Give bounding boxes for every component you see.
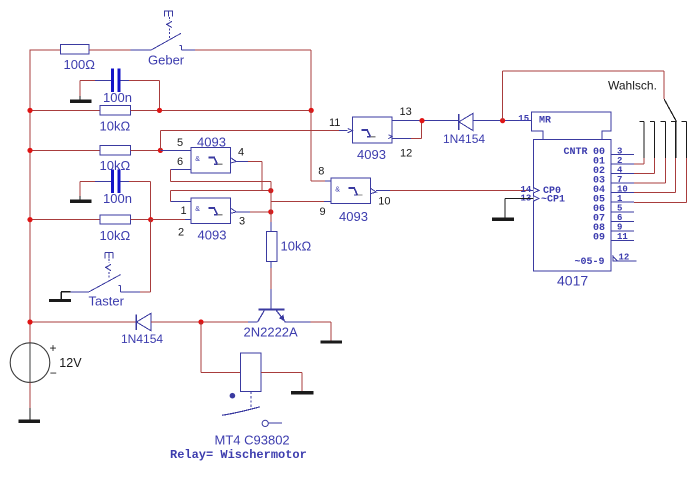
wire U1C pin13 output to diode D1 <box>392 120 459 122</box>
wire Taster right up to node row3 <box>120 220 150 292</box>
wire R5 to Q1 base <box>270 262 272 309</box>
capacitor C2 100n <box>95 170 129 193</box>
svg-text:MT4 C93802: MT4 C93802 <box>215 433 290 448</box>
pin label 13 CP1 <box>521 194 532 204</box>
4017 output 01 pin 2 stub <box>593 156 634 168</box>
ground V1 <box>18 420 40 423</box>
wire bus to R1 <box>30 49 61 51</box>
svg-text:100n: 100n <box>103 191 132 206</box>
4017 output 09 pin 11 stub <box>593 232 634 244</box>
ground CP1 <box>492 218 514 221</box>
svg-text:2N2222A: 2N2222A <box>244 325 299 340</box>
wire D1 to node H and MR pin15 <box>473 120 532 122</box>
node row2 <box>158 148 163 153</box>
switch S1 Geber <box>131 11 182 50</box>
wire node to U1D pin 9 <box>271 200 331 202</box>
svg-text:5: 5 <box>177 137 183 149</box>
wire C1 left to ground <box>80 81 95 100</box>
wire U1B pin1 from feedback row <box>170 190 270 201</box>
svg-text:100n: 100n <box>103 90 132 105</box>
wire D2 to node I <box>151 321 201 323</box>
svg-text:100Ω: 100Ω <box>64 57 96 72</box>
4017 output ~05-9 pin 12 stub <box>613 253 637 263</box>
svg-text:2: 2 <box>178 227 184 239</box>
wire bus to diode D2 <box>30 321 136 323</box>
pin label 15 <box>518 114 529 124</box>
svg-text:15: 15 <box>518 114 529 124</box>
resistor R5 10k vertical <box>267 232 277 262</box>
label C2 100n <box>103 191 132 206</box>
svg-text:09: 09 <box>593 233 605 244</box>
svg-text:&: & <box>195 156 200 163</box>
label Taster <box>89 294 125 309</box>
svg-text:11: 11 <box>329 117 340 129</box>
wire node H up to Wahlsch common <box>503 71 665 121</box>
Wahlsch contact 3 and wire to output 03 <box>634 122 666 184</box>
wire C1 right to node row1 <box>129 81 160 111</box>
svg-text:−: − <box>50 366 57 380</box>
4017 output 08 pin 9 stub <box>593 223 634 235</box>
svg-text:Relay= Wischermotor: Relay= Wischermotor <box>170 448 307 462</box>
wire C2 right down to node row3 <box>129 181 151 219</box>
text MR <box>539 116 551 127</box>
wire R3 to node C <box>131 149 161 151</box>
svg-text:2: 2 <box>617 156 622 166</box>
wire R1 to Geber switch <box>89 49 131 51</box>
Wahlsch contact 2 and wire to output 02 <box>634 122 655 174</box>
label Q1 2N2222A <box>244 325 299 340</box>
op-amp U1C 4093 gate pins 11 12 13 <box>348 117 392 143</box>
svg-text:12: 12 <box>619 253 630 263</box>
svg-text:9: 9 <box>320 206 326 218</box>
svg-text:8: 8 <box>318 165 324 177</box>
svg-text:6: 6 <box>617 213 622 223</box>
Wahlsch contact 5 and wire to output 05 <box>634 122 687 203</box>
label R2 10kOhm <box>100 119 131 134</box>
svg-text:Geber: Geber <box>148 53 185 68</box>
node bus-row1 <box>27 108 32 113</box>
svg-text:4: 4 <box>617 165 623 175</box>
svg-text:1N4154: 1N4154 <box>443 132 485 146</box>
Wahlsch contact 4 and wire to output 04 <box>634 122 676 193</box>
svg-text:13: 13 <box>400 106 412 118</box>
pin label 13 <box>400 106 412 118</box>
svg-text:Wahlsch.: Wahlsch. <box>608 78 657 92</box>
wire node row2 up to U1C pin 11 <box>161 131 348 151</box>
node G U1C output <box>419 118 424 123</box>
node row1-C1 <box>157 108 162 113</box>
node row3 <box>148 217 153 222</box>
svg-text:5: 5 <box>617 204 622 214</box>
wire node row2 to U1A pin 5 <box>160 149 191 151</box>
op-amp U1B 4093 gate pins 1 2 3 <box>191 198 236 224</box>
svg-text:1: 1 <box>617 194 623 204</box>
pin label 6 <box>177 156 183 168</box>
wire ~CP1 pin13 to ground <box>505 199 534 218</box>
switch S2 Taster <box>71 253 121 292</box>
svg-text:10kΩ: 10kΩ <box>281 239 312 254</box>
svg-text:1: 1 <box>181 205 187 217</box>
transistor Q1 2N2222A <box>258 309 286 322</box>
wire U1A output4 down to row <box>236 162 262 191</box>
4017 output 00 pin 3 stub <box>593 146 634 158</box>
resistor R2 10k row1 <box>100 106 131 115</box>
wire Q1 collector to node I <box>201 321 258 323</box>
pin label 12 <box>400 148 412 160</box>
label Wahlsch. <box>608 78 657 92</box>
resistor R4 10k row3 <box>100 215 131 224</box>
label Relay= Wischermotor <box>170 448 307 462</box>
svg-text:4093: 4093 <box>197 135 226 150</box>
node I relay drive <box>198 319 203 324</box>
node bus-row3 <box>27 217 32 222</box>
svg-text:CNTR: CNTR <box>564 147 588 158</box>
op-amp U1D 4093 gate pins 8 9 10 <box>331 178 376 204</box>
label D1 1N4154 <box>443 132 485 146</box>
wire Geber to node A top run <box>182 50 312 110</box>
node E gates feedback <box>268 188 273 193</box>
node bus-bottom <box>27 319 32 324</box>
svg-text:10kΩ: 10kΩ <box>100 228 131 243</box>
wire R2 to node B and long run to gate U1D pin8 column <box>131 109 312 111</box>
wire U1C pin12 feedback to output node <box>392 121 422 139</box>
4017 output 02 pin 4 stub <box>593 165 634 177</box>
label U1C 4093 <box>357 147 386 162</box>
diode D2 1N4154 <box>136 313 151 330</box>
label R1 100 Ohm <box>64 57 96 72</box>
wire node E down through node F to R5 <box>270 182 272 232</box>
ground Taster <box>49 299 71 302</box>
wire node row3 to U1B pin 2 <box>151 219 191 221</box>
svg-text:11: 11 <box>617 232 628 242</box>
label D2 1N4154 <box>121 332 163 346</box>
svg-text:10kΩ: 10kΩ <box>100 119 131 134</box>
svg-text:4093: 4093 <box>357 147 386 162</box>
wire bus to R2 <box>30 109 100 111</box>
pin label 2 <box>178 227 184 239</box>
ground Q1 emitter <box>320 340 342 343</box>
node row1-Geber-pin8 <box>309 108 314 113</box>
diode D1 1N4154 <box>459 113 473 130</box>
wire U1D output10 to 4017 CP0 pin14 <box>376 190 533 192</box>
svg-text:4093: 4093 <box>198 228 227 243</box>
svg-text:7: 7 <box>617 175 622 185</box>
relay K1 contact <box>222 392 282 427</box>
wire R4 to node D <box>131 219 151 221</box>
svg-text:4093: 4093 <box>339 209 368 224</box>
resistor R1 100 Ohm <box>61 45 90 54</box>
svg-text:1N4154: 1N4154 <box>121 332 163 346</box>
wire node to U1D pin 8 <box>311 110 331 180</box>
svg-text:4017: 4017 <box>557 273 588 289</box>
resistor R3 10k row2 <box>100 146 131 155</box>
4017 output 03 pin 7 stub <box>593 175 634 187</box>
label Geber <box>148 53 185 68</box>
wire supply bus left vertical <box>29 50 31 343</box>
voltage source V1 12V <box>10 341 57 382</box>
wire C2 left to ground <box>80 181 95 199</box>
svg-text:3: 3 <box>617 146 622 156</box>
node H MR <box>500 118 505 123</box>
wire Q1 emitter to ground <box>285 322 331 341</box>
wire Taster left to ground <box>61 292 70 299</box>
ground C2 <box>70 200 92 203</box>
svg-text:&: & <box>335 186 340 193</box>
wire bus to R3 <box>30 149 100 151</box>
svg-text:+: + <box>50 341 57 355</box>
label 12V <box>59 356 82 370</box>
pin label 11 <box>329 117 340 129</box>
svg-text:Taster: Taster <box>89 294 125 309</box>
label relay MT4 C93802 <box>215 433 290 448</box>
text ~CP1 <box>541 195 565 206</box>
pin label 8 <box>318 165 324 177</box>
svg-text:10: 10 <box>617 185 628 195</box>
4017 output 07 pin 6 stub <box>593 213 634 225</box>
pin label 5 <box>177 137 183 149</box>
4017 output 05 pin 1 stub <box>593 194 634 206</box>
wire bus to R4 <box>30 219 100 221</box>
svg-text:6: 6 <box>177 156 183 168</box>
node F gate outputs <box>268 209 273 214</box>
text CP0 <box>543 186 561 197</box>
wire U1A pin6 feedback loop <box>170 170 271 182</box>
label U1B 4093 <box>198 228 227 243</box>
relay K1 coil <box>240 353 261 391</box>
pin label 10 <box>378 196 390 208</box>
label C1 100n <box>103 90 132 105</box>
4017 output 04 pin 10 stub <box>593 185 634 197</box>
wire node I down to relay coil <box>201 322 240 373</box>
svg-text:MR: MR <box>539 116 551 127</box>
label U1D 4093 <box>339 209 368 224</box>
svg-text:4: 4 <box>238 147 244 159</box>
label R3 10kOhm <box>100 158 131 173</box>
svg-text:~05-9: ~05-9 <box>575 257 605 268</box>
wire U1B output3 to node F <box>236 211 270 213</box>
svg-text:10kΩ: 10kΩ <box>100 158 131 173</box>
svg-text:&: & <box>195 206 200 213</box>
wire relay coil to ground <box>261 373 302 392</box>
svg-text:10: 10 <box>378 196 390 208</box>
pin label 9 <box>320 206 326 218</box>
label R4 10kOhm <box>100 228 131 243</box>
wire V1 to ground <box>29 382 31 419</box>
label R5 10kOhm <box>281 239 312 254</box>
text CNTR <box>564 147 588 158</box>
svg-text:12V: 12V <box>59 356 82 370</box>
ground C1 <box>70 100 92 103</box>
capacitor C1 100n <box>95 69 129 92</box>
pin label 3 <box>239 216 245 228</box>
node bus-row2 <box>27 148 32 153</box>
text ~05-9 <box>575 257 605 268</box>
label U2 4017 <box>557 273 588 289</box>
pin label 4 <box>238 147 244 159</box>
svg-text:~CP1: ~CP1 <box>541 195 565 206</box>
Wahlsch contact 1 and wire to output 01 <box>634 122 644 165</box>
svg-text:12: 12 <box>400 148 412 160</box>
label U1A 4093 <box>197 135 226 150</box>
svg-text:3: 3 <box>239 216 245 228</box>
svg-text:9: 9 <box>617 223 622 233</box>
4017 output 06 pin 5 stub <box>593 204 634 216</box>
pin label 1 <box>181 205 187 217</box>
pin label 14 <box>521 185 532 195</box>
IC U2 4017 counter body <box>532 112 612 271</box>
switch Wahlsch selector arm <box>664 99 676 122</box>
op-amp U1A 4093 gate pins 5 6 4 <box>191 148 236 174</box>
ground relay <box>291 391 314 394</box>
